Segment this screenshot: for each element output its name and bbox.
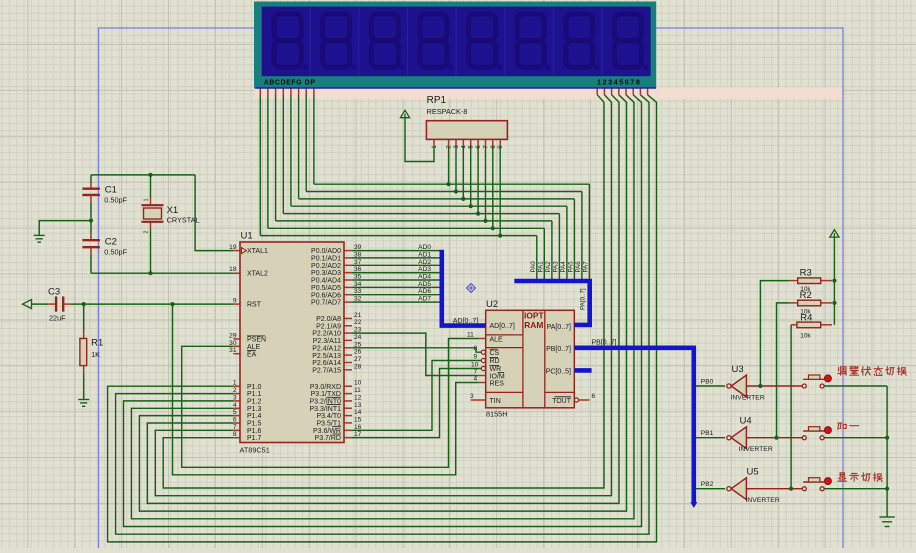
svg-text:PA0: PA0 [530,261,537,273]
svg-text:AT89C51: AT89C51 [240,446,270,455]
svg-text:RST: RST [247,302,262,309]
svg-text:24: 24 [354,334,362,341]
svg-text:P1.2: P1.2 [247,399,262,406]
svg-text:TIN: TIN [490,398,501,405]
svg-text:7: 7 [233,424,237,431]
svg-text:5: 5 [233,409,237,416]
svg-text:11: 11 [354,387,361,394]
svg-text:10: 10 [471,361,479,368]
svg-text:6: 6 [233,416,237,423]
svg-text:P0.0/AD0: P0.0/AD0 [311,248,341,255]
svg-text:AD[0..7]: AD[0..7] [490,323,515,330]
svg-text:PA[0..7]: PA[0..7] [547,324,571,331]
svg-text:XTAL2: XTAL2 [247,270,268,277]
svg-text:22: 22 [354,319,362,326]
svg-text:13: 13 [354,402,362,409]
svg-text:P2.5/A13: P2.5/A13 [312,353,341,360]
svg-text:3: 3 [233,394,237,401]
svg-text:P1.3: P1.3 [247,406,262,413]
svg-text:1: 1 [144,198,150,201]
svg-text:P2.0/A8: P2.0/A8 [316,316,341,323]
svg-text:XTAL1: XTAL1 [247,248,268,255]
svg-text:R2: R2 [800,290,812,301]
svg-text:PB[0..7]: PB[0..7] [592,340,617,347]
svg-text:P1.5: P1.5 [247,421,262,428]
svg-text:CRYSTAL: CRYSTAL [167,216,200,225]
svg-text:INVERTER: INVERTER [731,394,765,401]
svg-text:16: 16 [354,424,362,431]
svg-text:P2.4/A12: P2.4/A12 [312,345,341,352]
svg-text:PA[0..7]: PA[0..7] [580,288,587,310]
svg-text:39: 39 [354,244,362,251]
svg-text:25: 25 [354,341,362,348]
svg-text:31: 31 [229,347,237,354]
svg-text:RES: RES [490,381,505,388]
svg-text:PB1: PB1 [701,430,714,437]
svg-text:CS: CS [490,350,500,357]
svg-text:PA6: PA6 [575,261,582,273]
svg-text:P2.2/A10: P2.2/A10 [312,331,341,338]
svg-text:AD1: AD1 [418,251,431,258]
svg-text:P3.0/RXD: P3.0/RXD [310,384,341,391]
svg-text:1K: 1K [91,350,100,359]
svg-text:8155H: 8155H [486,410,508,419]
svg-text:10k: 10k [800,333,811,340]
svg-text:C2: C2 [105,237,117,248]
svg-text:27: 27 [354,356,362,363]
svg-text:ALE: ALE [247,344,261,351]
svg-text:P2.3/A11: P2.3/A11 [313,338,341,345]
svg-text:P3.7/RD: P3.7/RD [315,435,341,442]
svg-text:11: 11 [467,332,474,339]
svg-text:35: 35 [354,274,362,281]
svg-text:PC[0..5]: PC[0..5] [546,368,571,375]
svg-text:AD[0..7]: AD[0..7] [453,318,478,325]
svg-text:INVERTER: INVERTER [739,446,773,453]
svg-text:22uF: 22uF [49,314,66,323]
svg-text:AD7: AD7 [418,296,431,303]
svg-text:PA7: PA7 [582,261,589,273]
svg-text:9: 9 [474,353,478,360]
svg-text:30: 30 [229,340,237,347]
svg-text:U2: U2 [486,299,498,310]
svg-text:PA1: PA1 [537,261,544,273]
svg-text:R3: R3 [800,268,812,279]
svg-text:INVERTER: INVERTER [746,497,780,504]
svg-text:X1: X1 [167,205,179,216]
svg-text:P0.4/AD4: P0.4/AD4 [311,278,341,285]
svg-text:9: 9 [233,298,237,305]
svg-text:AD3: AD3 [418,266,431,273]
svg-text:21: 21 [354,312,362,319]
svg-text:P3.3/INT1: P3.3/INT1 [309,406,341,413]
svg-text:P0.2/AD2: P0.2/AD2 [311,263,341,270]
svg-text:8: 8 [474,345,478,352]
svg-text:C3: C3 [48,287,60,298]
svg-text:U4: U4 [740,416,752,427]
svg-text:4: 4 [474,376,478,383]
svg-text:17: 17 [354,431,362,438]
svg-text:U5: U5 [747,467,759,478]
svg-text:R4: R4 [800,313,812,324]
svg-text:23: 23 [354,327,362,334]
svg-text:18: 18 [229,266,237,273]
svg-text:P0.3/AD3: P0.3/AD3 [311,270,341,277]
svg-text:36: 36 [354,266,362,273]
svg-text:U3: U3 [732,364,744,375]
svg-text:26: 26 [354,349,362,356]
svg-text:10: 10 [354,380,362,387]
svg-text:32: 32 [354,296,362,303]
svg-text:ALE: ALE [490,336,504,343]
svg-text:33: 33 [354,288,362,295]
svg-text:29: 29 [229,333,237,340]
svg-text:P1.7: P1.7 [247,435,262,442]
svg-text:34: 34 [354,281,362,288]
svg-text:P1.4: P1.4 [247,413,262,420]
svg-text:7: 7 [474,368,478,375]
svg-text:0.50pF: 0.50pF [104,248,127,257]
svg-text:PSEN: PSEN [247,337,266,344]
svg-text:P0.1/AD1: P0.1/AD1 [311,256,341,263]
svg-text:RP1: RP1 [427,95,447,106]
svg-text:37: 37 [354,259,362,266]
svg-text:AD2: AD2 [418,259,431,266]
svg-text:28: 28 [354,363,362,370]
svg-text:0.50pF: 0.50pF [104,196,127,205]
svg-text:AD0: AD0 [418,244,431,251]
svg-text:P1.6: P1.6 [247,428,262,435]
svg-text:6: 6 [592,393,596,400]
svg-text:R1: R1 [91,338,103,349]
svg-text:P1.1: P1.1 [247,391,262,398]
svg-text:RD: RD [490,358,500,365]
svg-text:2: 2 [233,387,237,394]
svg-text:PA4: PA4 [560,261,567,273]
svg-text:PA2: PA2 [545,261,552,273]
svg-text:19: 19 [229,244,237,251]
svg-text:P1.0: P1.0 [247,384,262,391]
svg-text:P0.7/AD7: P0.7/AD7 [311,300,341,307]
svg-text:AD6: AD6 [418,288,431,295]
svg-text:C1: C1 [105,185,117,196]
svg-text:1: 1 [233,380,237,387]
svg-text:RESPACK-8: RESPACK-8 [427,107,468,116]
svg-text:P2.6/A14: P2.6/A14 [312,360,341,367]
svg-text:AD5: AD5 [418,281,431,288]
svg-text:3: 3 [470,393,474,400]
svg-text:P3.4/T0: P3.4/T0 [316,413,341,420]
svg-text:P0.6/AD6: P0.6/AD6 [311,292,341,299]
svg-text:ABCDEFG DP: ABCDEFG DP [264,79,316,86]
svg-text:P2.7/A15: P2.7/A15 [312,367,341,374]
svg-text:IO/M: IO/M [490,373,505,380]
svg-text:8: 8 [233,431,237,438]
svg-text:TOUT: TOUT [552,398,572,405]
svg-text:AD4: AD4 [418,274,431,281]
svg-text:PA5: PA5 [567,261,574,273]
svg-text:P0.5/AD5: P0.5/AD5 [311,285,341,292]
svg-text:PB0: PB0 [701,378,714,385]
svg-text:U1: U1 [241,231,253,242]
svg-text:12: 12 [354,394,362,401]
svg-text:4: 4 [233,402,237,409]
svg-text:EA: EA [247,351,257,358]
svg-text:PB2: PB2 [701,481,714,488]
svg-text:12345678: 12345678 [597,77,641,86]
svg-text:2: 2 [144,230,150,233]
svg-text:PB[0..7]: PB[0..7] [546,346,571,353]
svg-text:14: 14 [354,409,362,416]
svg-text:PA3: PA3 [552,261,559,273]
svg-text:RAM: RAM [524,320,543,330]
svg-text:P2.1/A9: P2.1/A9 [316,323,341,330]
svg-text:38: 38 [354,251,362,258]
svg-text:15: 15 [354,416,362,423]
